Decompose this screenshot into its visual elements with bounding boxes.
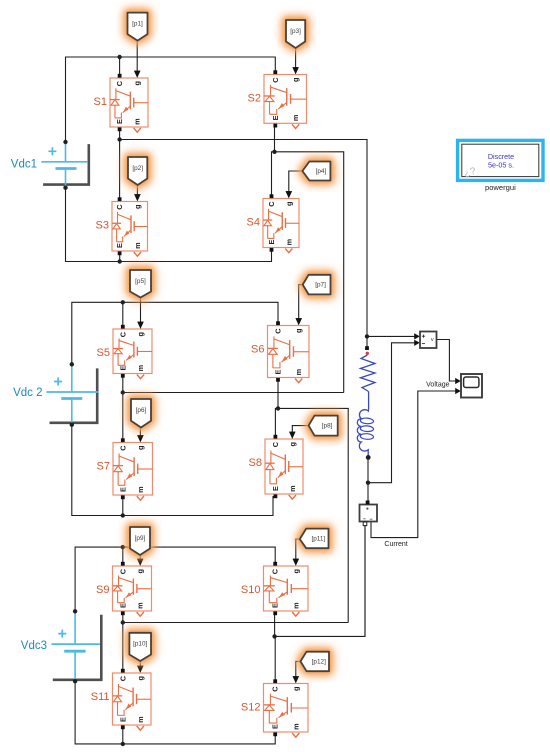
from tag [p1] bbox=[128, 13, 148, 41]
svg-text:g: g bbox=[136, 676, 145, 680]
svg-text:E: E bbox=[274, 370, 283, 375]
inductor L (series RLC branch, blue coil) bbox=[357, 409, 373, 460]
node B2: S6.E - S8.C junction, wire to bridge3 bbox=[275, 378, 348, 623]
svg-text:S4: S4 bbox=[247, 217, 260, 229]
svg-text:m: m bbox=[291, 723, 300, 730]
svg-text:Vdc3: Vdc3 bbox=[21, 640, 47, 652]
node A1: S1.E - S3.C junction, wire to load bbox=[117, 127, 367, 336]
svg-text:E: E bbox=[271, 115, 280, 120]
wire: current measurement bottom to node B3 bbox=[364, 526, 366, 637]
transistor S7 (IGBT/Diode block) bbox=[97, 435, 153, 500]
transistor S3 (IGBT/Diode block) bbox=[96, 194, 148, 256]
from tag [p7] bbox=[303, 275, 331, 295]
svg-text:E: E bbox=[118, 717, 127, 722]
svg-text:[p11]: [p11] bbox=[311, 535, 325, 542]
wire: current measurement output to scope input 2 bbox=[371, 388, 461, 538]
svg-text:E: E bbox=[115, 243, 124, 248]
svg-text:g: g bbox=[136, 569, 145, 573]
svg-text:m: m bbox=[294, 368, 303, 375]
wire from tag [p10] to S11 gate bbox=[137, 661, 143, 673]
svg-text:m: m bbox=[133, 242, 142, 249]
svg-text:m: m bbox=[291, 114, 300, 121]
wire from tag [p4] to S4 gate bbox=[286, 171, 303, 198]
svg-text:C: C bbox=[118, 445, 127, 451]
node load-top junction: wire to V+ input bbox=[365, 333, 420, 348]
from tag [p12] bbox=[301, 652, 330, 672]
transistor S4 (IGBT/Diode block) bbox=[247, 191, 299, 252]
svg-text:Current: Current bbox=[384, 541, 407, 548]
powergui block (Discrete 5e-05 s.) bbox=[458, 140, 543, 192]
svg-text:C: C bbox=[115, 80, 124, 86]
node A3: S9.E - S11.C junction, receives bridge2 B2 bbox=[121, 611, 349, 673]
node A2: S5.E - S7.C junction, receives bridge1 B1 bbox=[121, 374, 344, 443]
wire from tag [p8] to S8 gate bbox=[289, 426, 309, 439]
svg-text:g: g bbox=[291, 569, 300, 573]
svg-text:m: m bbox=[288, 485, 297, 492]
svg-text:S1: S1 bbox=[94, 96, 107, 108]
svg-text:m: m bbox=[136, 486, 145, 493]
svg-text:S12: S12 bbox=[241, 702, 261, 714]
svg-text:[p12]: [p12] bbox=[312, 658, 326, 665]
svg-text:powergui: powergui bbox=[485, 183, 516, 192]
wire: bridge1 DC- bottom bus bbox=[66, 188, 272, 264]
svg-text:[p8]: [p8] bbox=[322, 423, 333, 430]
svg-text:g: g bbox=[291, 78, 300, 82]
transistor S11 (IGBT/Diode block) bbox=[91, 666, 151, 730]
wire from tag [p11] to S10 gate bbox=[293, 539, 300, 566]
wire from tag [p5] to S5 gate bbox=[137, 297, 143, 329]
svg-text:[p6]: [p6] bbox=[136, 407, 147, 414]
svg-text:E: E bbox=[118, 366, 127, 371]
svg-text:[p4]: [p4] bbox=[316, 168, 327, 175]
transistor S2 (IGBT/Diode block) bbox=[248, 67, 307, 128]
svg-text:m: m bbox=[136, 716, 145, 723]
svg-text:g: g bbox=[291, 687, 300, 691]
transistor S9 (IGBT/Diode block) bbox=[96, 559, 151, 616]
wire from tag [p1] to S1 gate bbox=[134, 41, 140, 78]
node B1: S2.E - S4.C junction, wire to bridge2 bbox=[272, 123, 344, 392]
svg-text:C: C bbox=[118, 675, 127, 681]
wire from tag [p6] to S7 gate bbox=[137, 428, 143, 443]
svg-text:m: m bbox=[284, 238, 293, 245]
wire: bridge2 DC- bottom bus bbox=[72, 425, 273, 518]
svg-text:S7: S7 bbox=[97, 461, 110, 473]
transistor S8 (IGBT/Diode block) bbox=[249, 432, 303, 499]
wire: bridge3 DC+ top bus bbox=[75, 545, 275, 611]
svg-text:C: C bbox=[271, 686, 280, 692]
svg-text:m: m bbox=[136, 364, 145, 371]
wire from tag [p3] to S2 gate bbox=[292, 48, 298, 74]
svg-text:S6: S6 bbox=[251, 344, 264, 356]
voltage measurement block U_V bbox=[420, 332, 437, 349]
transistor S5 (IGBT/Diode block) bbox=[97, 322, 152, 379]
svg-text:C: C bbox=[118, 331, 127, 337]
wire: bridge1 DC+ top bus bbox=[66, 55, 276, 142]
svg-text:5e-05 s.: 5e-05 s. bbox=[488, 161, 514, 170]
svg-text:g: g bbox=[294, 329, 303, 333]
from tag [p6] bbox=[131, 399, 151, 428]
from tag [p5] bbox=[130, 270, 151, 298]
svg-text:[p9]: [p9] bbox=[135, 535, 146, 542]
svg-text:[p1]: [p1] bbox=[132, 20, 143, 27]
svg-text:S10: S10 bbox=[241, 584, 261, 596]
svg-text:g: g bbox=[133, 81, 142, 85]
svg-text:C: C bbox=[118, 568, 127, 574]
svg-text:[p2]: [p2] bbox=[132, 165, 143, 172]
wire: V- input from load bottom bbox=[368, 340, 420, 483]
wire from tag [p7] to S6 gate bbox=[296, 285, 303, 326]
from tag [p8] bbox=[309, 416, 338, 436]
svg-text:E: E bbox=[271, 486, 280, 491]
svg-text:S9: S9 bbox=[96, 584, 109, 596]
svg-text:m: m bbox=[133, 118, 142, 125]
svg-text:Voltage: Voltage bbox=[426, 381, 449, 388]
svg-text:g: g bbox=[136, 446, 145, 450]
dc voltage source Vdc1 bbox=[11, 140, 89, 190]
svg-text:S11: S11 bbox=[91, 691, 110, 703]
svg-text:C: C bbox=[274, 328, 283, 334]
svg-text:S3: S3 bbox=[96, 220, 109, 232]
dc voltage source Vdc2 bbox=[13, 362, 99, 427]
current measurement block U_I bbox=[360, 501, 378, 526]
svg-text:m: m bbox=[291, 602, 300, 609]
svg-text:S2: S2 bbox=[248, 93, 261, 105]
from tag [p3] bbox=[286, 20, 305, 48]
svg-text:S8: S8 bbox=[249, 457, 262, 469]
wire: voltage measurement output to scope input 1 bbox=[437, 340, 461, 385]
wire from tag [p2] to S3 gate bbox=[134, 185, 140, 201]
wire: bridge2 DC+ top bus bbox=[72, 300, 278, 364]
svg-text:g: g bbox=[288, 442, 297, 446]
from tag [p4] bbox=[302, 162, 330, 181]
svg-text:E: E bbox=[271, 603, 280, 608]
svg-text:C: C bbox=[271, 568, 280, 574]
from tag [p9] bbox=[130, 527, 150, 555]
wire from tag [p9] to S9 gate bbox=[137, 555, 143, 566]
svg-text:g: g bbox=[284, 202, 293, 206]
svg-text:v: v bbox=[431, 337, 434, 343]
resistor R (series RLC branch, blue) bbox=[361, 346, 376, 409]
from tag [p2] bbox=[128, 157, 147, 185]
svg-text:C: C bbox=[115, 204, 124, 210]
svg-text:Vdc 2: Vdc 2 bbox=[13, 387, 42, 399]
dc voltage source Vdc3 bbox=[21, 609, 102, 683]
from tag [p10] bbox=[129, 633, 151, 661]
svg-text:m: m bbox=[136, 602, 145, 609]
svg-text:[p5]: [p5] bbox=[135, 278, 146, 285]
svg-text:E: E bbox=[115, 119, 124, 124]
svg-text:[p3]: [p3] bbox=[290, 28, 301, 35]
transistor S12 (IGBT/Diode block) bbox=[241, 676, 308, 737]
svg-text:C: C bbox=[271, 441, 280, 447]
svg-text:[p7]: [p7] bbox=[315, 282, 326, 289]
svg-text:E: E bbox=[267, 240, 276, 245]
scope block (Voltage/Current scope) bbox=[461, 374, 482, 398]
from tag [p11] bbox=[300, 529, 329, 549]
svg-text:Vdc1: Vdc1 bbox=[11, 159, 37, 171]
transistor S1 (IGBT/Diode block) bbox=[94, 71, 148, 132]
svg-text:E: E bbox=[271, 724, 280, 729]
node B3: S10.E - S12.C junction, wire up to current measurement bbox=[272, 526, 365, 682]
svg-text:S5: S5 bbox=[97, 347, 110, 359]
svg-text:E: E bbox=[118, 487, 127, 492]
transistor S6 (IGBT/Diode block) bbox=[251, 318, 309, 382]
transistor S10 (IGBT/Diode block) bbox=[241, 559, 308, 616]
wire: load bottom to current measurement bbox=[366, 458, 370, 502]
svg-text:C: C bbox=[267, 201, 276, 207]
svg-text:g: g bbox=[136, 332, 145, 336]
wire: bridge3 DC- bottom bus bbox=[75, 681, 275, 746]
svg-text:[p10]: [p10] bbox=[133, 641, 147, 648]
svg-text:g: g bbox=[133, 205, 142, 209]
svg-text:E: E bbox=[118, 603, 127, 608]
wire from tag [p12] to S12 gate bbox=[293, 661, 301, 683]
svg-text:C: C bbox=[271, 77, 280, 83]
